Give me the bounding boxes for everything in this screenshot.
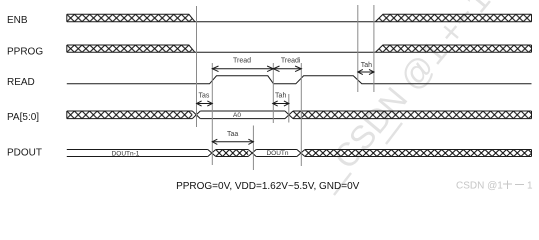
svg-text:Tas: Tas (198, 92, 209, 99)
ENB low wire (195, 21, 375, 23)
svg-text:DOUTn: DOUTn (266, 150, 288, 157)
svg-text:READ: READ (7, 77, 35, 88)
svg-text:A0: A0 (233, 112, 241, 119)
ENB hatched segment left (67, 14, 195, 21)
svg-text:PA[5:0]: PA[5:0] (7, 112, 39, 123)
dimension arrow Tah right (358, 69, 374, 74)
vertical guide V2 (211, 63, 213, 165)
svg-text:DOUTn-1: DOUTn-1 (112, 150, 140, 157)
dimension arrow Tah mid (273, 101, 289, 106)
dimension arrow Tas (197, 101, 213, 106)
vertical guide V6 (252, 126, 254, 171)
PA hatched segment left (67, 111, 193, 119)
PPROG hatched segment left (67, 45, 195, 52)
PDOUT hatched segment right (305, 150, 532, 157)
vertical guide V4 (288, 94, 290, 123)
svg-text:Taa: Taa (227, 131, 238, 138)
diagonal watermark CSDN (326, 0, 497, 175)
svg-text:ENB: ENB (7, 15, 28, 26)
diagonal watermark stray strokes (334, 123, 402, 195)
PDOUT crossover X1 (208, 150, 216, 157)
READ waveform wire (67, 76, 532, 84)
vertical guide V5 (300, 63, 302, 166)
PPROG hatched segment right (375, 45, 531, 52)
svg-text:Tah: Tah (361, 62, 372, 69)
PDOUT crossover X3 (297, 150, 305, 157)
vertical guide V8 (373, 5, 375, 92)
PDOUT hatched segment mid (216, 150, 248, 157)
vertical guide V3 (272, 63, 274, 123)
ENB hatched segment right (375, 14, 531, 21)
dimension arrow Taa (212, 139, 253, 144)
svg-text:Treadi: Treadi (281, 57, 301, 64)
svg-text:PPROG: PPROG (7, 46, 43, 57)
vertical guide V1 (196, 6, 198, 127)
vertical guide V7 (357, 5, 359, 92)
PA bus crossover X1 (192, 111, 200, 119)
PA hatched segment right (293, 111, 532, 119)
svg-text:Tread: Tread (233, 57, 251, 64)
svg-text:PDOUT: PDOUT (7, 148, 42, 159)
PPROG low wire (195, 51, 375, 53)
PDOUT valid DOUTn-1 segment (67, 150, 208, 157)
PA bus crossover X2 (285, 111, 293, 119)
PDOUT valid DOUTn segment (256, 150, 297, 157)
PDOUT crossover X2 (248, 150, 256, 157)
dimension arrow Treadi (273, 66, 301, 72)
svg-text:CSDN @1: CSDN @1 (456, 181, 503, 192)
svg-text:Tah: Tah (275, 92, 286, 99)
watermark CSDN bottom right (456, 181, 533, 192)
svg-text:PPROG=0V, VDD=1.62V~5.5V, GND=: PPROG=0V, VDD=1.62V~5.5V, GND=0V (176, 181, 360, 192)
svg-text:1: 1 (527, 181, 533, 192)
dimension arrow Tread (212, 66, 273, 72)
PA valid A0 segment (200, 111, 285, 119)
